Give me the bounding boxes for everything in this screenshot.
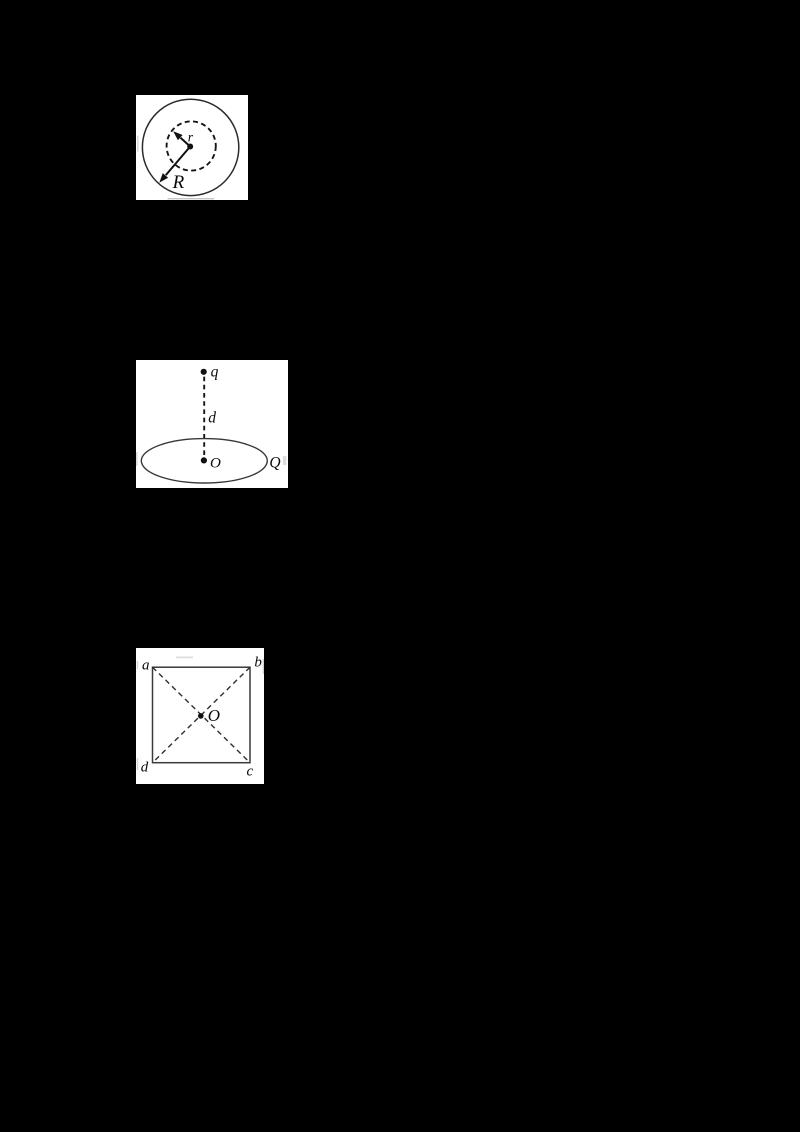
charge q dot xyxy=(201,369,207,375)
svg-text:O: O xyxy=(210,456,221,472)
svg-text:q: q xyxy=(211,364,219,381)
svg-text:O: O xyxy=(208,706,220,725)
gray artifact top smudge xyxy=(176,657,193,659)
outer circle R xyxy=(142,99,238,195)
figure 2: point charge q above charged disc Q xyxy=(136,360,288,488)
svg-text:b: b xyxy=(254,655,262,671)
gray artifact tick right of b xyxy=(263,659,264,674)
gray artifact line bottom xyxy=(168,198,215,199)
gray artifact tick near d xyxy=(137,758,138,770)
dashed diagonal a-c xyxy=(153,667,251,763)
gray artifact right of Q xyxy=(283,456,286,465)
disc ellipse xyxy=(141,439,267,483)
svg-text:d: d xyxy=(208,410,216,427)
gray artifact left edge xyxy=(136,452,138,466)
dashed diagonal b-d xyxy=(153,667,251,763)
svg-text:a: a xyxy=(142,658,150,674)
center dot xyxy=(187,144,193,150)
svg-text:c: c xyxy=(247,764,254,780)
centre dot O xyxy=(198,713,204,719)
figure 3: square abcd with dashed diagonals and centre O xyxy=(136,648,264,784)
dashed line d xyxy=(203,377,205,456)
center dot O xyxy=(201,457,207,463)
arrow to inner circle (r) xyxy=(173,131,190,146)
svg-text:d: d xyxy=(141,760,149,776)
square abcd xyxy=(153,667,251,763)
inner dashed circle r xyxy=(167,121,216,170)
gray artifact strip left edge xyxy=(137,136,139,152)
svg-text:R: R xyxy=(172,172,185,193)
gray artifact tick near a xyxy=(137,661,138,669)
svg-text:Q: Q xyxy=(269,455,280,472)
svg-text:r: r xyxy=(188,130,194,145)
arrow to outer circle (R) xyxy=(159,147,190,183)
figure 1: charged sphere with radii r and R xyxy=(136,95,248,200)
